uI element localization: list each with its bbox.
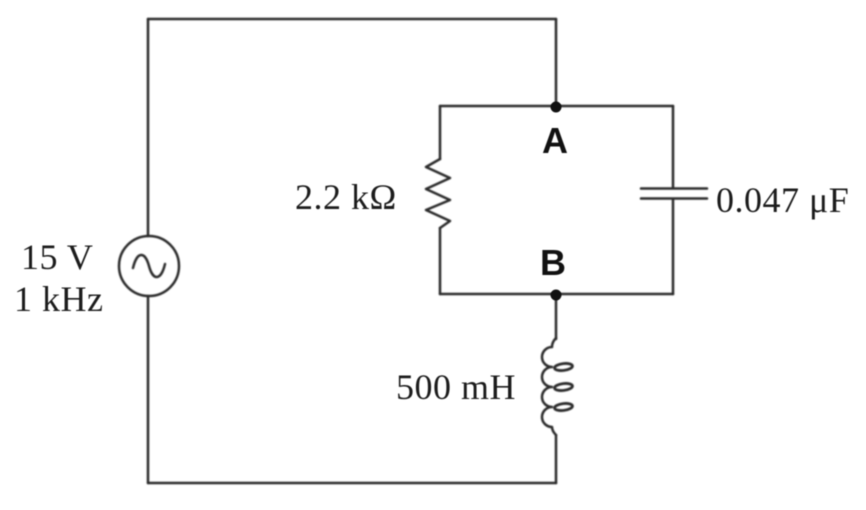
- svg-text:A: A: [542, 120, 568, 161]
- svg-text:500 mH: 500 mH: [396, 367, 516, 407]
- inductor loop 2: [554, 383, 573, 392]
- wire resistor branch upper lead: [439, 106, 442, 159]
- inductor loop 1: [554, 363, 573, 372]
- wire parallel box bottom: [440, 293, 673, 296]
- svg-text:0.047 μF: 0.047 μF: [716, 180, 849, 220]
- svg-text:15 V: 15 V: [21, 237, 93, 277]
- wire right vertical from top to node A: [555, 19, 558, 106]
- wire left vertical upper: [147, 19, 150, 236]
- wire top horizontal: [148, 18, 556, 21]
- resistor 2.2 kΩ zigzag: [426, 159, 450, 228]
- wire capacitor branch upper lead: [672, 106, 675, 188]
- wire inductor to bottom: [555, 435, 558, 483]
- inductor loop 3: [554, 403, 573, 412]
- wire node B to inductor: [555, 294, 558, 339]
- capacitor 0.047 µF bottom plate: [641, 197, 707, 200]
- node B junction dot: [551, 290, 562, 301]
- capacitor 0.047 µF top plate: [641, 187, 707, 190]
- svg-text:2.2 kΩ: 2.2 kΩ: [295, 177, 397, 217]
- wire capacitor branch lower lead: [672, 199, 675, 294]
- node A junction dot: [551, 102, 562, 113]
- svg-text:1 kHz: 1 kHz: [14, 279, 103, 319]
- source V1 circle: [119, 236, 179, 296]
- wire resistor branch lower lead: [439, 228, 442, 294]
- wire bottom horizontal: [148, 482, 556, 485]
- source sine wave: [133, 255, 165, 277]
- wire left vertical lower: [147, 296, 150, 483]
- inductor 500 mH coil: [542, 338, 556, 435]
- svg-text:B: B: [540, 242, 566, 283]
- wire parallel box top: [440, 105, 673, 108]
